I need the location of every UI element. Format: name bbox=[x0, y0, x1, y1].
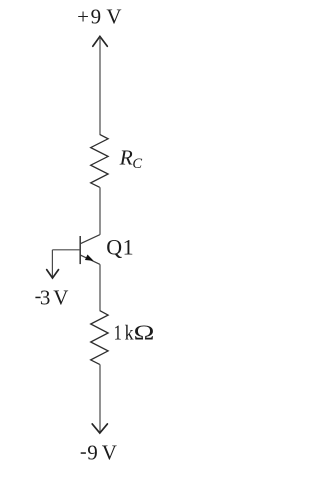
power +9V source arrow bbox=[93, 36, 108, 46]
node -9V supply label bbox=[81, 440, 117, 464]
value label RC bbox=[119, 146, 143, 172]
svg-text:Q1: Q1 bbox=[106, 235, 133, 260]
power -9V arrow bbox=[92, 424, 107, 433]
svg-text:9V: 9V bbox=[87, 440, 117, 464]
wire from +9V arrow down to resistor RC bbox=[99, 37, 101, 134]
resistor RC bbox=[91, 134, 108, 187]
-3V arrowhead bbox=[47, 270, 59, 278]
svg-text:R: R bbox=[119, 146, 133, 170]
label Q1 bbox=[106, 235, 133, 260]
svg-text:1: 1 bbox=[114, 322, 122, 345]
wire from emitter down to 1k resistor bbox=[99, 264, 101, 310]
transistor Q1 bbox=[80, 235, 100, 265]
value label 1 kOhm bbox=[114, 322, 155, 345]
wire from 1k resistor down to -9V arrow bbox=[99, 364, 101, 432]
node -3V label bbox=[35, 285, 68, 309]
svg-text:Ω: Ω bbox=[134, 322, 155, 345]
wire from RC down to collector of Q1 bbox=[99, 187, 101, 235]
-3V source wire down bbox=[51, 250, 53, 277]
node +9V supply label bbox=[77, 5, 121, 29]
resistor 1k bbox=[91, 311, 108, 365]
svg-text:+9V: +9V bbox=[77, 5, 121, 29]
base wire of Q1 bbox=[52, 249, 80, 251]
svg-text:3V: 3V bbox=[40, 285, 68, 309]
svg-text:C: C bbox=[132, 156, 142, 172]
svg-text:k: k bbox=[125, 322, 134, 345]
